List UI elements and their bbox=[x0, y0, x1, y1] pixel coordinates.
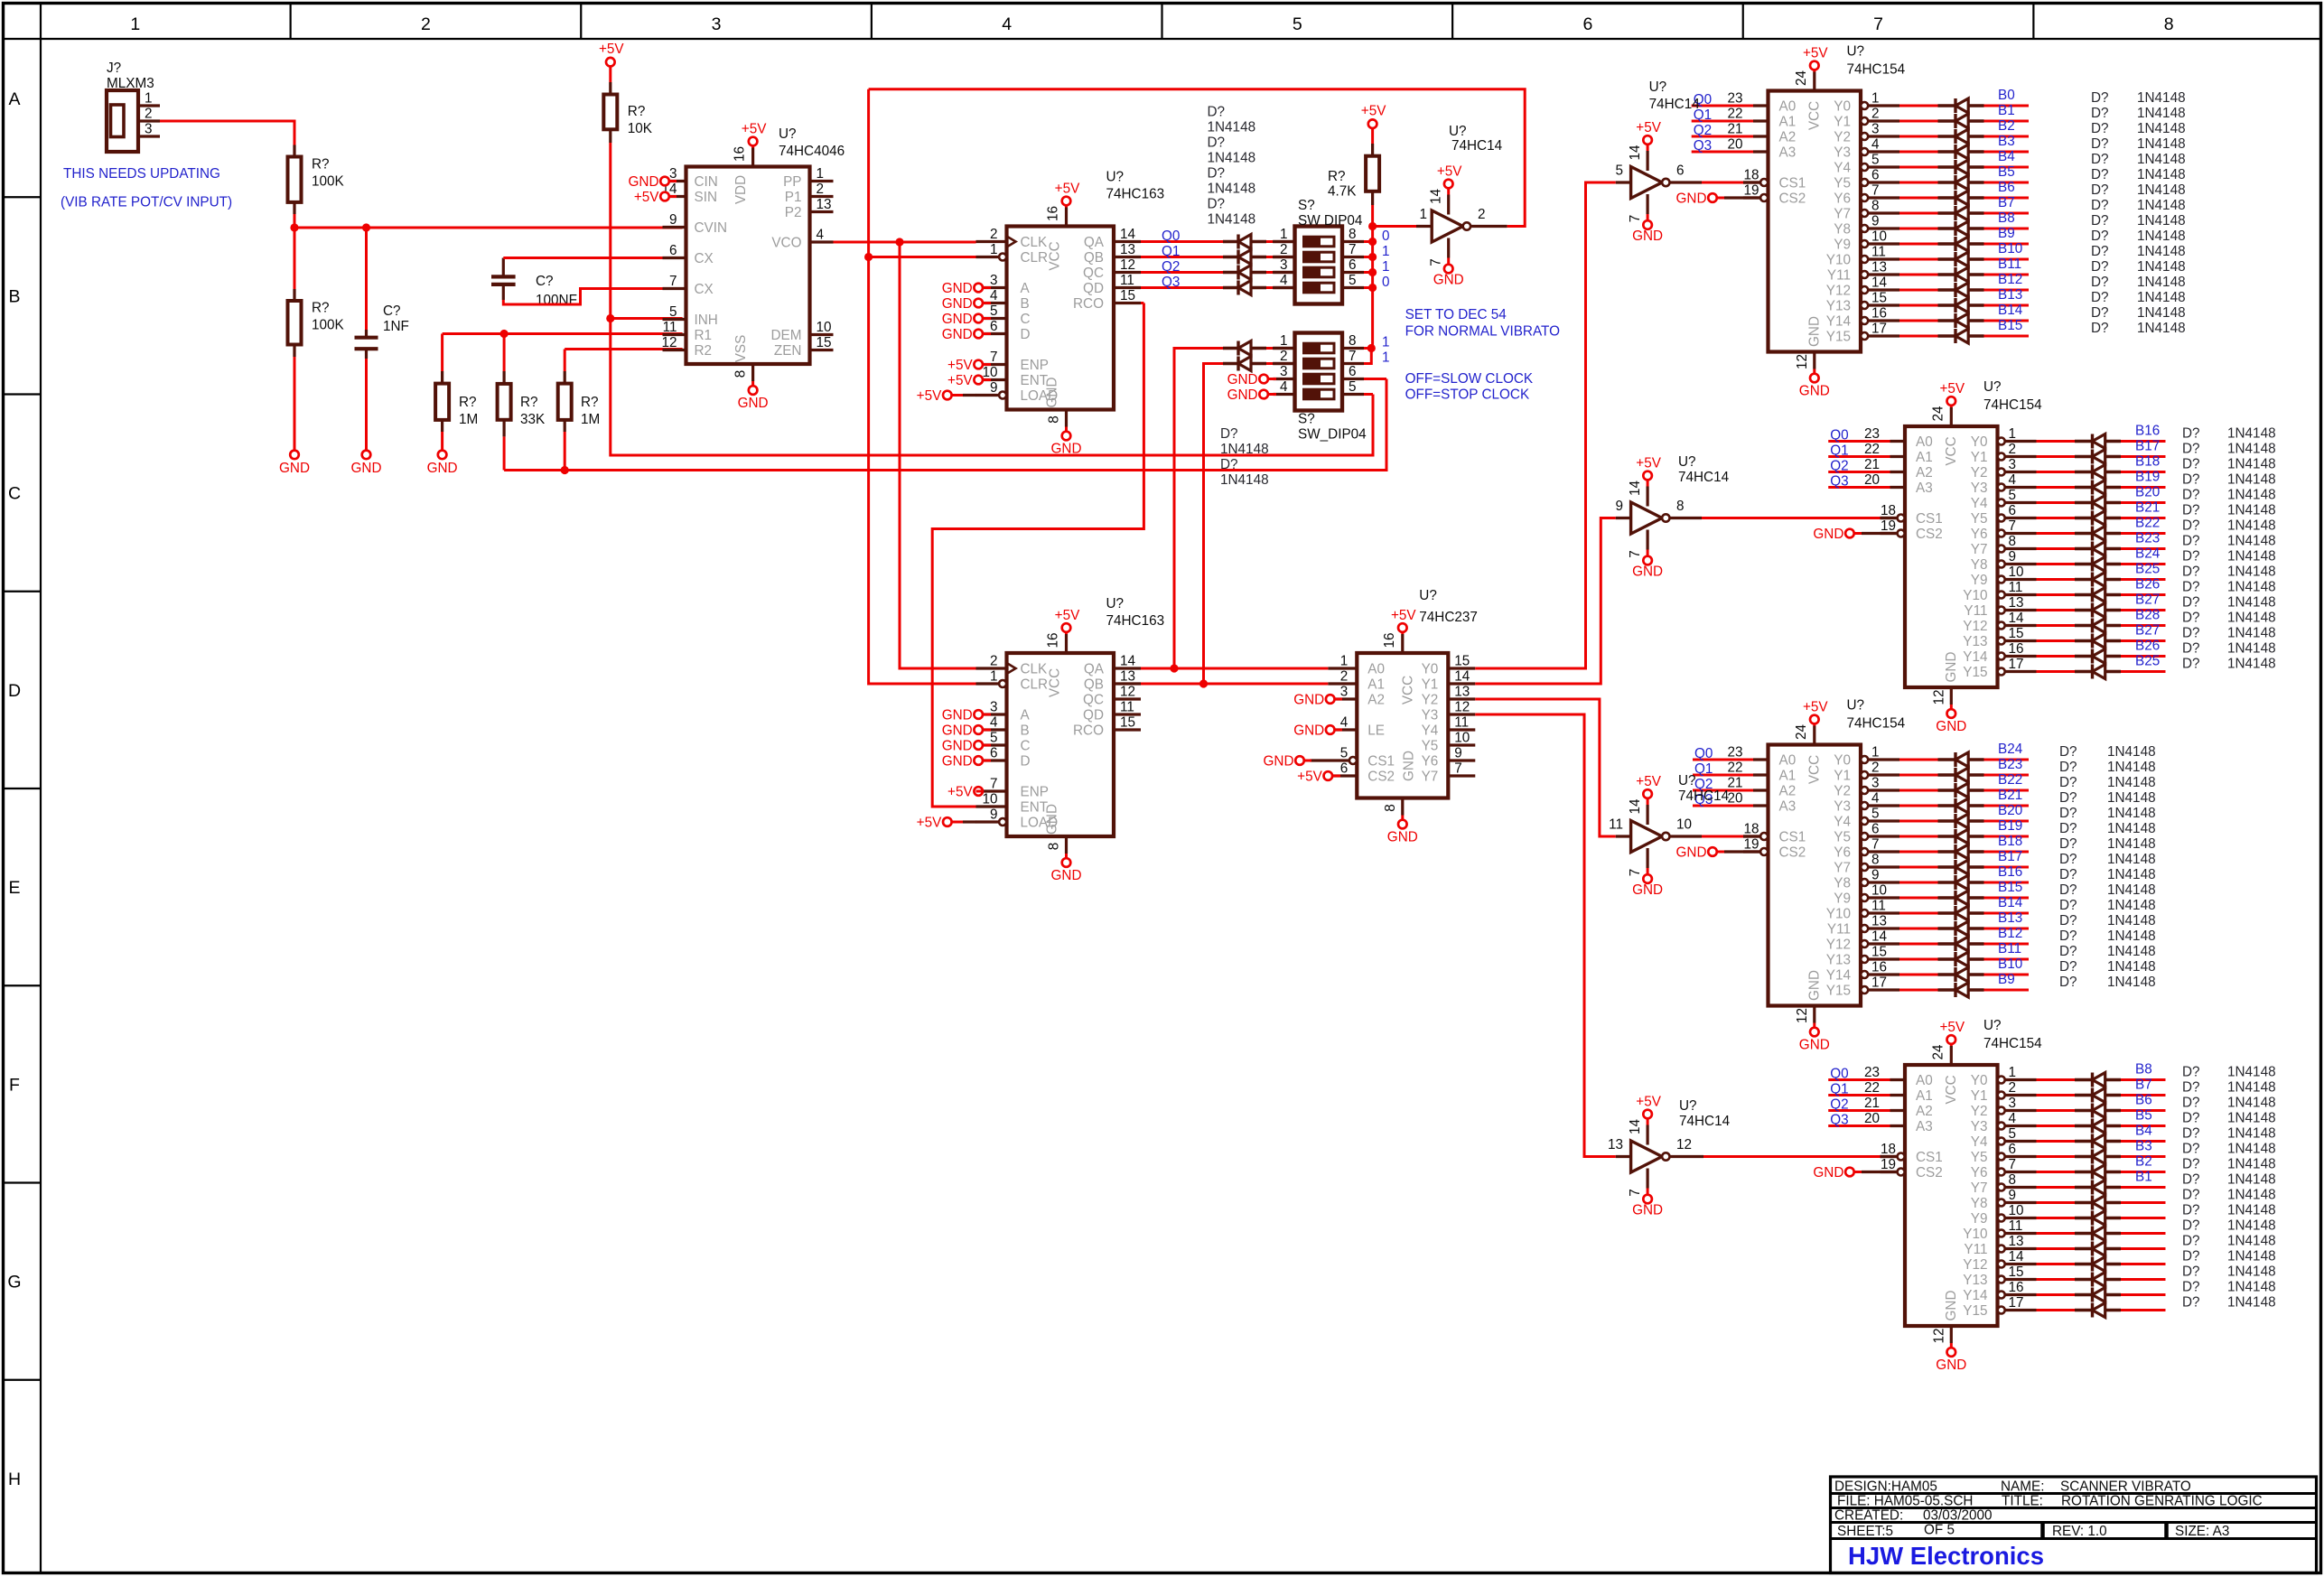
svg-text:1: 1 bbox=[817, 166, 825, 182]
svg-text:SET TO DEC 54: SET TO DEC 54 bbox=[1405, 307, 1507, 322]
diode D? 1N4148 on U5 Y2 bbox=[1938, 135, 1956, 137]
svg-text:1: 1 bbox=[1280, 333, 1288, 349]
svg-text:A2: A2 bbox=[1916, 1104, 1933, 1119]
svg-text:Q2: Q2 bbox=[1162, 259, 1180, 275]
power GND at U8 pin12 bbox=[1813, 1006, 1815, 1023]
svg-text:+5V: +5V bbox=[1437, 164, 1462, 180]
svg-text:GND: GND bbox=[427, 461, 458, 476]
wire from diode U6 Y5 bbox=[2121, 517, 2166, 519]
svg-text:5: 5 bbox=[1615, 163, 1623, 179]
wire from diode U8 Y5 bbox=[1984, 835, 2030, 838]
svg-text:1: 1 bbox=[130, 14, 140, 34]
svg-text:CS1: CS1 bbox=[1367, 754, 1395, 770]
svg-text:12: 12 bbox=[1120, 257, 1135, 273]
diode D? 1N4148 on U5 Y11 bbox=[1938, 273, 1956, 275]
svg-text:Y6: Y6 bbox=[1971, 527, 1988, 542]
svg-text:16: 16 bbox=[1382, 632, 1397, 648]
power GND at U6 CS2 bbox=[1845, 529, 1854, 538]
svg-text:GND: GND bbox=[738, 396, 769, 411]
svg-text:Q3: Q3 bbox=[1162, 275, 1180, 290]
svg-text:GND: GND bbox=[1227, 387, 1258, 403]
diode D4 1N4148 bbox=[1223, 286, 1238, 289]
svg-text:THIS NEEDS UPDATING: THIS NEEDS UPDATING bbox=[63, 166, 220, 182]
wire from diode U8 Y13 bbox=[1984, 958, 2030, 961]
svg-text:J?: J? bbox=[107, 61, 121, 76]
svg-text:GND: GND bbox=[1676, 845, 1707, 861]
svg-text:A3: A3 bbox=[1916, 481, 1933, 496]
svg-text:Y4: Y4 bbox=[1422, 723, 1439, 739]
svg-text:8: 8 bbox=[1349, 333, 1357, 349]
svg-text:Q0: Q0 bbox=[1830, 428, 1848, 443]
svg-text:+5V: +5V bbox=[1361, 104, 1386, 119]
svg-text:1N4148: 1N4148 bbox=[2227, 1188, 2276, 1203]
inverter U7A 74HC14 bbox=[1373, 225, 1416, 228]
wire R1 line (pin 11) from R4/R5 tops bbox=[443, 332, 683, 335]
diode D? 1N4148 on U6 Y11 bbox=[2075, 609, 2093, 611]
svg-text:R?: R? bbox=[459, 395, 477, 410]
svg-text:1M: 1M bbox=[581, 412, 600, 427]
svg-text:4: 4 bbox=[2009, 1111, 2017, 1126]
svg-text:D?: D? bbox=[2182, 565, 2200, 580]
wire U9 pin 10 Y9 bbox=[1998, 1215, 2005, 1222]
svg-text:ENP: ENP bbox=[1021, 785, 1049, 800]
svg-text:Y1: Y1 bbox=[1971, 450, 1988, 465]
svg-text:1: 1 bbox=[990, 242, 998, 257]
svg-text:74HC14: 74HC14 bbox=[1678, 470, 1730, 485]
svg-text:22: 22 bbox=[1727, 107, 1742, 122]
diode D? 1N4148 on U9 Y7 bbox=[2075, 1186, 2093, 1189]
svg-text:7: 7 bbox=[1349, 242, 1357, 257]
wire U9 pin 4 Y3 bbox=[1998, 1123, 2005, 1130]
svg-text:D?: D? bbox=[2091, 305, 2109, 321]
power GND at U9 CS2 bbox=[1845, 1168, 1854, 1177]
wire from diode U6 Y3 bbox=[2121, 486, 2166, 489]
svg-text:CS1: CS1 bbox=[1916, 511, 1943, 527]
power GND at U2 pin D bbox=[974, 330, 983, 339]
svg-text:2: 2 bbox=[1478, 207, 1486, 222]
svg-text:1N4148: 1N4148 bbox=[2227, 549, 2276, 565]
diode D? 1N4148 on U6 Y4 bbox=[2075, 501, 2093, 504]
svg-text:VCC: VCC bbox=[1048, 241, 1063, 270]
svg-text:B: B bbox=[1021, 723, 1030, 739]
svg-text:3: 3 bbox=[990, 273, 998, 288]
svg-text:Y6: Y6 bbox=[1971, 1165, 1988, 1180]
svg-text:(VIB RATE POT/CV INPUT): (VIB RATE POT/CV INPUT) bbox=[61, 195, 232, 210]
svg-text:+5V: +5V bbox=[1803, 700, 1828, 715]
svg-text:5: 5 bbox=[1871, 807, 1880, 822]
wire from diode U8 Y3 bbox=[1984, 805, 2030, 807]
svg-text:3: 3 bbox=[2009, 457, 2017, 472]
svg-text:10: 10 bbox=[982, 792, 997, 807]
svg-text:B19: B19 bbox=[1998, 818, 2022, 834]
power GND at U3 pin A bbox=[974, 710, 983, 719]
svg-text:GND: GND bbox=[1944, 652, 1959, 683]
svg-text:6: 6 bbox=[990, 746, 998, 761]
svg-text:74HC14: 74HC14 bbox=[1451, 138, 1503, 154]
svg-text:1N4148: 1N4148 bbox=[2137, 136, 2186, 152]
svg-text:22: 22 bbox=[1864, 1080, 1880, 1096]
svg-text:GND: GND bbox=[1799, 384, 1830, 399]
svg-text:8: 8 bbox=[1871, 199, 1880, 214]
svg-text:R?: R? bbox=[1328, 169, 1346, 184]
wire from diode U6 Y4 bbox=[2121, 501, 2166, 504]
svg-text:1: 1 bbox=[1419, 207, 1427, 222]
diode D? 1N4148 on U5 Y7 bbox=[1938, 211, 1956, 214]
diode D? 1N4148 on U6 Y13 bbox=[2075, 639, 2093, 642]
svg-text:LE: LE bbox=[1367, 723, 1385, 739]
svg-text:1N4148: 1N4148 bbox=[2137, 213, 2186, 229]
diode D? 1N4148 on U6 Y0 bbox=[2075, 440, 2093, 443]
svg-text:C?: C? bbox=[536, 274, 554, 289]
wire U5 pin 1 Y0 bbox=[1861, 102, 1868, 109]
resistor R4 1M bbox=[441, 334, 443, 372]
svg-text:2: 2 bbox=[145, 107, 153, 122]
wire U4 Y3 to inverter E input bbox=[1475, 714, 1616, 1157]
svg-text:16: 16 bbox=[2009, 641, 2024, 657]
svg-text:24: 24 bbox=[1794, 70, 1809, 87]
diode D? 1N4148 on U5 Y6 bbox=[1938, 196, 1956, 199]
svg-text:10: 10 bbox=[2009, 565, 2024, 580]
capacitor C2 100NF bbox=[502, 258, 505, 277]
svg-text:D?: D? bbox=[2182, 534, 2200, 549]
svg-text:Y8: Y8 bbox=[1834, 876, 1851, 891]
svg-text:REV: 1.0: REV: 1.0 bbox=[2052, 1524, 2107, 1539]
svg-text:B19: B19 bbox=[2135, 470, 2160, 485]
svg-text:14: 14 bbox=[1628, 798, 1643, 815]
svg-text:R?: R? bbox=[312, 301, 330, 316]
svg-text:D?: D? bbox=[2091, 259, 2109, 275]
svg-text:GND: GND bbox=[1799, 1038, 1830, 1053]
svg-text:SHEET:5: SHEET:5 bbox=[1837, 1524, 1893, 1539]
svg-text:F: F bbox=[9, 1075, 20, 1095]
svg-text:D?: D? bbox=[2091, 244, 2109, 259]
diode D? 1N4148 on U8 Y5 bbox=[1938, 835, 1956, 837]
svg-text:13: 13 bbox=[1120, 669, 1135, 685]
svg-text:+5V: +5V bbox=[1939, 381, 1965, 397]
svg-text:14: 14 bbox=[1454, 669, 1470, 685]
counter IC U2 74HC163 bbox=[1007, 227, 1115, 410]
svg-text:6: 6 bbox=[990, 319, 998, 334]
svg-text:1N4148: 1N4148 bbox=[2107, 913, 2156, 928]
svg-text:D?: D? bbox=[1208, 166, 1226, 182]
svg-text:B7: B7 bbox=[1998, 195, 2015, 210]
svg-text:1N4148: 1N4148 bbox=[2227, 626, 2276, 641]
wire from diode U6 Y14 bbox=[2121, 655, 2166, 658]
diode D? 1N4148 on U6 Y15 bbox=[2075, 670, 2093, 673]
wire from diode U6 Y12 bbox=[2121, 624, 2166, 627]
svg-text:20: 20 bbox=[1864, 1111, 1880, 1126]
svg-text:R?: R? bbox=[581, 395, 599, 410]
svg-text:B24: B24 bbox=[2135, 546, 2161, 562]
wire U6 pin 8 Y7 bbox=[1998, 546, 2005, 553]
svg-text:Q1: Q1 bbox=[1830, 443, 1848, 459]
svg-text:15: 15 bbox=[1871, 945, 1887, 960]
svg-text:Y7: Y7 bbox=[1834, 861, 1851, 876]
svg-text:1N4148: 1N4148 bbox=[2227, 518, 2276, 534]
svg-text:Y12: Y12 bbox=[1963, 619, 1987, 634]
svg-text:5: 5 bbox=[1349, 273, 1357, 288]
svg-text:Q2: Q2 bbox=[1830, 1097, 1848, 1113]
svg-text:+5V: +5V bbox=[1636, 456, 1661, 471]
svg-text:1N4148: 1N4148 bbox=[2137, 152, 2186, 167]
svg-text:4: 4 bbox=[1340, 715, 1349, 731]
svg-text:D?: D? bbox=[2091, 152, 2109, 167]
svg-text:Y8: Y8 bbox=[1971, 1196, 1988, 1211]
svg-text:Y9: Y9 bbox=[1971, 1211, 1988, 1227]
svg-text:1: 1 bbox=[145, 91, 153, 107]
diode D? 1N4148 on U8 Y0 bbox=[1938, 758, 1956, 761]
svg-text:6: 6 bbox=[1340, 761, 1349, 777]
svg-text:10K: 10K bbox=[628, 121, 653, 136]
svg-text:Y11: Y11 bbox=[1827, 922, 1851, 938]
power GND at U2 pin B bbox=[974, 299, 983, 308]
svg-text:U?: U? bbox=[1983, 1018, 2002, 1033]
wire VCO to CLK of U2 bbox=[834, 241, 976, 244]
svg-text:5: 5 bbox=[1340, 746, 1349, 761]
wire U6 pin 1 Y0 bbox=[1998, 438, 2005, 445]
svg-text:4: 4 bbox=[990, 715, 998, 731]
svg-text:19: 19 bbox=[1881, 518, 1896, 534]
wire U5 pin 10 Y9 bbox=[1861, 240, 1868, 247]
svg-text:U?: U? bbox=[1449, 124, 1467, 139]
svg-text:CX: CX bbox=[695, 251, 714, 266]
svg-text:D?: D? bbox=[1208, 105, 1226, 120]
wire C2 bottom to 4046 pin 7 bbox=[502, 285, 505, 300]
wire C2 top to 4046 pin 6 bbox=[503, 257, 682, 259]
svg-text:1: 1 bbox=[1340, 654, 1349, 669]
svg-text:D: D bbox=[1021, 327, 1031, 342]
svg-text:D?: D? bbox=[1208, 135, 1226, 151]
wire CLK net down to U3 CLK bbox=[900, 242, 976, 668]
wire U5 pin 8 Y7 bbox=[1861, 210, 1868, 217]
wire from diode U5 Y8 bbox=[1984, 228, 2030, 230]
svg-text:B15: B15 bbox=[1998, 318, 2022, 333]
svg-text:8: 8 bbox=[1047, 415, 1062, 424]
power GND at U4 pin8 bbox=[1401, 798, 1404, 816]
svg-text:SW_DIP04: SW_DIP04 bbox=[1298, 427, 1367, 443]
svg-text:1N4148: 1N4148 bbox=[2107, 928, 2156, 944]
svg-text:14: 14 bbox=[2009, 1249, 2025, 1264]
wire from diode U6 Y9 bbox=[2121, 578, 2166, 581]
svg-text:CX: CX bbox=[695, 282, 714, 297]
wire from diode U6 Y1 bbox=[2121, 455, 2166, 458]
diode D? 1N4148 on U6 Y5 bbox=[2075, 517, 2093, 519]
svg-text:13: 13 bbox=[1608, 1137, 1623, 1152]
svg-text:14: 14 bbox=[2009, 611, 2025, 626]
svg-text:GND: GND bbox=[1293, 693, 1324, 708]
svg-text:D?: D? bbox=[2182, 580, 2200, 595]
wire U5 pin 14 Y12 bbox=[1861, 286, 1868, 294]
power GND at U3 pin8 bbox=[1065, 836, 1068, 854]
diode D? 1N4148 on U6 Y8 bbox=[2075, 563, 2093, 565]
power GND at 4046 pin3 bbox=[660, 177, 669, 186]
svg-text:A0: A0 bbox=[1779, 753, 1797, 769]
svg-text:15: 15 bbox=[1871, 291, 1887, 306]
wire from diode U6 Y8 bbox=[2121, 563, 2166, 565]
svg-text:1N4148: 1N4148 bbox=[2227, 1280, 2276, 1295]
svg-text:24: 24 bbox=[1930, 1044, 1946, 1060]
diode D? 1N4148 on U6 Y9 bbox=[2075, 578, 2093, 581]
svg-text:B16: B16 bbox=[1998, 864, 2022, 880]
power +5V at U6 pin24 bbox=[1950, 407, 1953, 426]
svg-text:8: 8 bbox=[733, 370, 749, 378]
svg-text:D?: D? bbox=[2182, 503, 2200, 518]
svg-text:Q0: Q0 bbox=[1694, 746, 1713, 761]
decoder IC U9 74HC154 fourth bbox=[1905, 1065, 1998, 1326]
svg-text:B20: B20 bbox=[2135, 485, 2160, 500]
svg-text:11: 11 bbox=[1609, 817, 1623, 833]
svg-text:22: 22 bbox=[1864, 442, 1880, 457]
svg-text:B0: B0 bbox=[1998, 88, 2015, 103]
svg-text:Y13: Y13 bbox=[1826, 953, 1851, 968]
wire from diode U9 Y0 bbox=[2121, 1078, 2166, 1081]
svg-text:74HC4046: 74HC4046 bbox=[779, 144, 845, 159]
svg-text:0: 0 bbox=[1382, 275, 1390, 290]
diode D? 1N4148 on U5 Y8 bbox=[1938, 227, 1956, 229]
wire U5 pin 9 Y8 bbox=[1861, 225, 1868, 232]
wire from diode U5 Y5 bbox=[1984, 182, 2030, 184]
svg-text:S?: S? bbox=[1298, 412, 1315, 427]
svg-text:DESIGN:HAM05: DESIGN:HAM05 bbox=[1834, 1479, 1937, 1495]
svg-text:6: 6 bbox=[1871, 822, 1880, 837]
wire from diode U5 Y13 bbox=[1984, 304, 2030, 307]
diode D? 1N4148 on U9 Y11 bbox=[2075, 1247, 2093, 1250]
wire S2 diode 1 to QA of U3 bbox=[1266, 347, 1273, 350]
diode D? 1N4148 on U6 Y7 bbox=[2075, 547, 2093, 550]
svg-text:17: 17 bbox=[1871, 975, 1887, 991]
diode D? 1N4148 on U8 Y1 bbox=[1938, 773, 1956, 776]
svg-text:Y3: Y3 bbox=[1834, 145, 1851, 161]
wire INH node down to horizontal bus bbox=[611, 319, 1373, 456]
svg-text:U?: U? bbox=[1419, 588, 1437, 603]
svg-text:D?: D? bbox=[2182, 611, 2200, 626]
svg-text:GND: GND bbox=[1807, 970, 1823, 1001]
svg-text:U?: U? bbox=[1106, 596, 1125, 611]
diode D? 1N4148 on U8 Y4 bbox=[1938, 819, 1956, 822]
svg-text:74HC237: 74HC237 bbox=[1419, 610, 1478, 625]
svg-text:1: 1 bbox=[1382, 259, 1390, 275]
resistor R2 100K bbox=[294, 228, 296, 289]
svg-text:1N4148: 1N4148 bbox=[1208, 151, 1256, 166]
svg-text:0: 0 bbox=[1382, 229, 1390, 244]
wire U4 Y1 to inverter C input bbox=[1475, 518, 1616, 685]
svg-text:1N4148: 1N4148 bbox=[2227, 1080, 2276, 1096]
svg-text:Y10: Y10 bbox=[1963, 588, 1987, 603]
ground at R2 bbox=[290, 451, 299, 460]
svg-text:GND: GND bbox=[942, 739, 973, 754]
svg-text:Y11: Y11 bbox=[1964, 603, 1987, 619]
svg-text:D?: D? bbox=[2182, 626, 2200, 641]
diode D? 1N4148 on U5 Y1 bbox=[1938, 119, 1956, 122]
svg-text:18: 18 bbox=[1743, 822, 1759, 837]
wire from diode U6 Y11 bbox=[2121, 609, 2166, 611]
svg-text:1N4148: 1N4148 bbox=[2227, 1203, 2276, 1218]
wire U9 pin 5 Y4 bbox=[1998, 1138, 2005, 1145]
svg-text:5: 5 bbox=[669, 304, 677, 320]
svg-text:D?: D? bbox=[2059, 790, 2077, 806]
svg-text:D?: D? bbox=[2182, 641, 2200, 657]
svg-text:17: 17 bbox=[2009, 1295, 2024, 1311]
svg-text:VCO: VCO bbox=[771, 236, 801, 251]
wire from diode U8 Y2 bbox=[1984, 789, 2030, 792]
wire from diode U9 Y11 bbox=[2121, 1247, 2166, 1250]
svg-text:8: 8 bbox=[1349, 227, 1357, 242]
wire J1 pin2 to R1 top bbox=[160, 121, 294, 145]
power GND at U8 CS2 bbox=[1708, 847, 1717, 856]
svg-text:B7: B7 bbox=[2135, 1078, 2152, 1093]
svg-text:Y6: Y6 bbox=[1834, 845, 1851, 861]
svg-text:SCANNER VIBRATO: SCANNER VIBRATO bbox=[2060, 1479, 2191, 1495]
svg-text:OF 5: OF 5 bbox=[1924, 1523, 1955, 1538]
svg-text:ENP: ENP bbox=[1021, 358, 1049, 373]
svg-text:23: 23 bbox=[1864, 1065, 1880, 1080]
svg-text:Y14: Y14 bbox=[1826, 314, 1852, 330]
svg-text:D?: D? bbox=[2091, 182, 2109, 198]
wire U6 pin 13 Y11 bbox=[1998, 607, 2005, 614]
svg-text:+5V: +5V bbox=[1636, 120, 1661, 135]
diode D? 1N4148 on U6 Y12 bbox=[2075, 624, 2093, 627]
svg-text:Y14: Y14 bbox=[1963, 1288, 1988, 1303]
svg-text:D?: D? bbox=[2182, 1111, 2200, 1126]
wire from diode U8 Y11 bbox=[1984, 928, 2030, 930]
svg-text:18: 18 bbox=[1881, 1142, 1896, 1157]
svg-text:Y10: Y10 bbox=[1963, 1227, 1987, 1242]
diode D? 1N4148 on U9 Y13 bbox=[2075, 1278, 2093, 1281]
svg-text:D?: D? bbox=[1208, 197, 1226, 212]
wire U6 pin 11 Y10 bbox=[1998, 592, 2005, 599]
wire from diode U5 Y2 bbox=[1984, 135, 2030, 138]
diode D? 1N4148 on U8 Y8 bbox=[1938, 881, 1956, 883]
diode D? 1N4148 on U6 Y14 bbox=[2075, 655, 2093, 658]
svg-text:Y1: Y1 bbox=[1834, 769, 1851, 784]
diode D? 1N4148 on U5 Y10 bbox=[1938, 257, 1956, 260]
diode D? 1N4148 on U8 Y12 bbox=[1938, 942, 1956, 945]
svg-text:HJW Electronics: HJW Electronics bbox=[1848, 1542, 2044, 1570]
wire from diode U9 Y4 bbox=[2121, 1140, 2166, 1143]
svg-text:Y7: Y7 bbox=[1422, 770, 1439, 785]
svg-text:B11: B11 bbox=[1998, 257, 2021, 272]
svg-text:GND: GND bbox=[1045, 804, 1060, 835]
svg-text:1N4148: 1N4148 bbox=[2137, 198, 2186, 213]
svg-text:B5: B5 bbox=[1998, 164, 2015, 180]
svg-text:03/03/2000: 03/03/2000 bbox=[1923, 1508, 1993, 1524]
svg-text:CS1: CS1 bbox=[1779, 176, 1806, 191]
wire U5 pin 17 Y15 bbox=[1861, 332, 1868, 340]
svg-text:7: 7 bbox=[1628, 550, 1643, 558]
svg-text:QD: QD bbox=[1083, 708, 1104, 723]
svg-text:11: 11 bbox=[2009, 580, 2023, 595]
power GND at S2 pin3 bbox=[1259, 375, 1268, 384]
svg-text:D?: D? bbox=[2182, 442, 2200, 457]
wire from diode U5 Y3 bbox=[1984, 151, 2030, 154]
wire from diode U9 Y6 bbox=[2121, 1171, 2166, 1173]
svg-text:GND: GND bbox=[1387, 830, 1418, 845]
svg-text:10: 10 bbox=[1871, 229, 1887, 245]
svg-text:1N4148: 1N4148 bbox=[2227, 503, 2276, 518]
svg-text:GND: GND bbox=[1051, 442, 1082, 457]
svg-text:Y0: Y0 bbox=[1834, 99, 1851, 115]
svg-text:Y3: Y3 bbox=[1422, 708, 1439, 723]
resistor R3 10K bbox=[609, 66, 611, 82]
svg-text:GND: GND bbox=[1401, 751, 1416, 781]
svg-text:B22: B22 bbox=[1998, 772, 2022, 788]
svg-text:1N4148: 1N4148 bbox=[2227, 1157, 2276, 1172]
svg-text:7: 7 bbox=[1454, 761, 1462, 777]
wire CVIN net to 4046 pin 9 bbox=[294, 227, 683, 229]
svg-text:VCC: VCC bbox=[1048, 668, 1063, 697]
svg-text:+5V: +5V bbox=[917, 388, 942, 404]
svg-text:14: 14 bbox=[1871, 275, 1888, 291]
